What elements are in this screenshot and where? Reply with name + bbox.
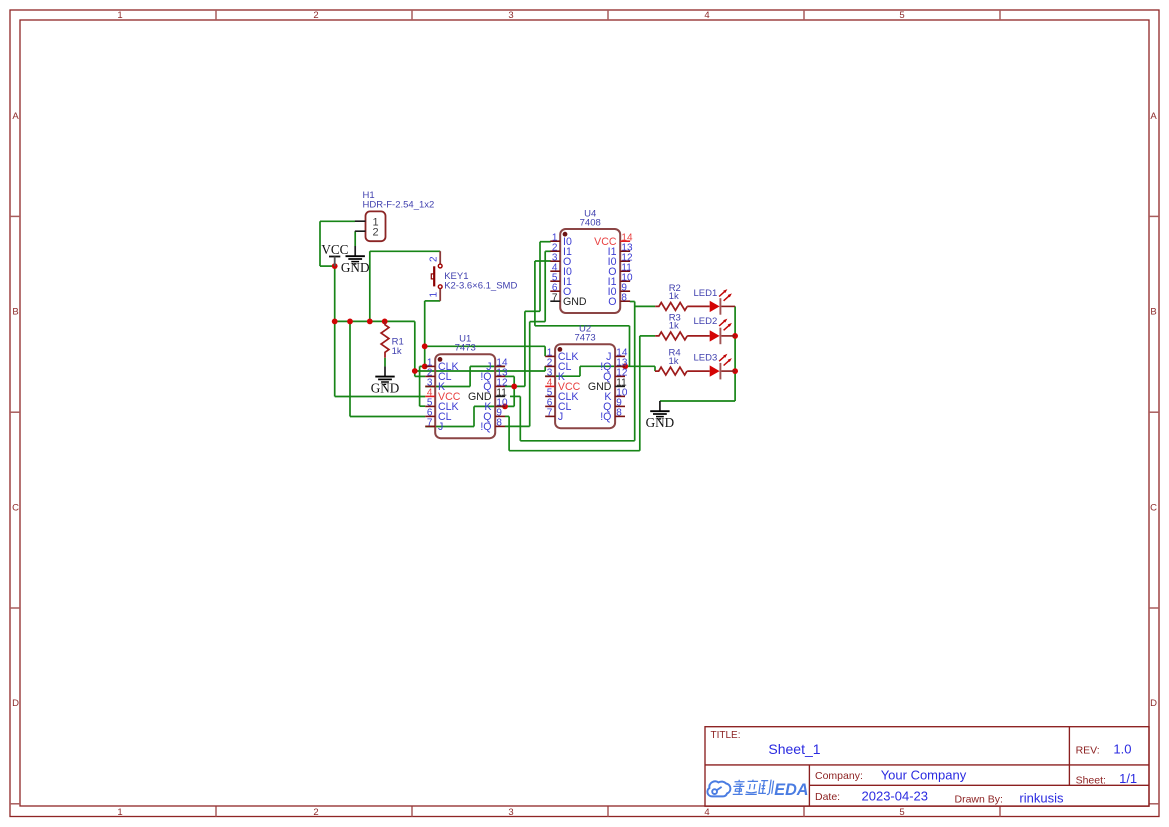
wire to KEY1 pin2 bbox=[370, 250, 440, 252]
wire to U1 pin14 J bbox=[470, 365, 505, 367]
U4 pin 10 (I1) bbox=[608, 272, 633, 287]
U1 pin 10 (K) bbox=[484, 398, 508, 413]
junction at 414.8,371.0 bbox=[412, 368, 418, 374]
wire U1 pin12 Q bbox=[505, 385, 525, 387]
resistor R1 bbox=[381, 321, 389, 357]
wire H1 pin1 to VCC corner bbox=[320, 220, 355, 222]
svg-text:C: C bbox=[1150, 502, 1157, 513]
junction at 514.2,386.4 bbox=[511, 384, 517, 390]
wire to U1 pin6 bbox=[350, 416, 425, 418]
svg-text:3: 3 bbox=[508, 807, 513, 818]
wire bbox=[513, 376, 515, 406]
svg-text:Your Company: Your Company bbox=[881, 768, 967, 783]
U2 pin 10 (K) bbox=[604, 388, 628, 403]
wire bbox=[508, 416, 510, 450]
svg-text:Sheet:: Sheet: bbox=[1076, 774, 1106, 786]
op-amp-style IC body U2 bbox=[555, 344, 615, 428]
wire to U2 pin13 bbox=[580, 365, 625, 367]
wire U1 pin10 K bbox=[474, 405, 514, 407]
U1 pin 4 (VCC) bbox=[425, 388, 460, 403]
U1 pin 8 (!Q) bbox=[480, 418, 505, 433]
svg-text:Company:: Company: bbox=[815, 770, 863, 782]
wire bbox=[420, 365, 425, 367]
U2 pin 8 (!Q) bbox=[600, 408, 625, 423]
wire U4 pin3 O bbox=[535, 260, 551, 262]
svg-text:GND: GND bbox=[371, 381, 400, 396]
wire bbox=[530, 321, 546, 323]
wire KEY1 pin1 bbox=[425, 300, 441, 302]
svg-text:2: 2 bbox=[313, 807, 318, 818]
wire bbox=[579, 366, 581, 376]
wire bbox=[654, 366, 656, 371]
svg-text:8: 8 bbox=[621, 292, 627, 303]
U4 pin 7 (GND) bbox=[550, 292, 587, 307]
svg-text:C: C bbox=[12, 502, 19, 513]
wire bbox=[320, 265, 335, 267]
svg-text:Sheet_1: Sheet_1 bbox=[768, 741, 820, 757]
svg-text:O: O bbox=[608, 296, 616, 308]
U4 pin 9 (I0) bbox=[608, 282, 630, 297]
U2 pin 11 (GND) bbox=[588, 378, 627, 393]
wire bbox=[414, 321, 416, 376]
U4 pin 4 (I0) bbox=[550, 262, 572, 277]
U2 pin 7 (J) bbox=[545, 408, 563, 423]
svg-text:TITLE:: TITLE: bbox=[711, 730, 741, 741]
svg-text:Date:: Date: bbox=[815, 791, 840, 803]
wire bbox=[525, 310, 540, 312]
U1 pin 3 (K) bbox=[425, 378, 445, 393]
svg-text:K2-3.6×6.1_SMD: K2-3.6×6.1_SMD bbox=[444, 281, 517, 292]
svg-text:LED2: LED2 bbox=[694, 316, 718, 327]
wire U1 pin7 J bbox=[425, 426, 474, 428]
U1 pin 11 (GND) bbox=[468, 388, 507, 403]
svg-text:1.0: 1.0 bbox=[1113, 742, 1131, 757]
svg-text:LED3: LED3 bbox=[694, 352, 718, 363]
U2 pin 3 (K) bbox=[545, 368, 565, 383]
wire U1 pin3 K bbox=[425, 386, 470, 388]
svg-text:5: 5 bbox=[899, 807, 904, 818]
pushbutton KEY1 bbox=[431, 251, 442, 301]
svg-text:!Q: !Q bbox=[600, 411, 611, 423]
wire U4 pin8 jog bbox=[630, 301, 635, 303]
wire to U4 pin1 bbox=[540, 241, 551, 243]
wire to U1 pin5 bbox=[420, 405, 426, 407]
junction at 369.8,321.4 bbox=[367, 319, 373, 325]
U1 pin 2 (CL) bbox=[425, 368, 451, 383]
wire bbox=[534, 261, 536, 326]
svg-text:1/1: 1/1 bbox=[1119, 771, 1137, 786]
wire U1 pin11 stub net bbox=[510, 395, 520, 397]
resistor R4 bbox=[655, 367, 687, 375]
JLCEDA logo cloud icon bbox=[707, 781, 730, 796]
H1 pin 2 bbox=[355, 230, 366, 232]
svg-text:GND: GND bbox=[341, 260, 370, 275]
title block bbox=[705, 727, 1149, 807]
U2 pin 9 (Q) bbox=[603, 398, 625, 413]
svg-text:Drawn By:: Drawn By: bbox=[955, 794, 1003, 806]
wire to U4 pin2 bbox=[545, 250, 551, 252]
wire bbox=[419, 366, 421, 406]
svg-text:!Q: !Q bbox=[480, 421, 491, 433]
U1 pin 7 (J) bbox=[425, 418, 443, 433]
wire R1 to GND bbox=[384, 358, 386, 367]
svg-text:7408: 7408 bbox=[580, 217, 601, 228]
svg-text:1: 1 bbox=[117, 10, 122, 21]
wire to U1 pin4 VCC bbox=[335, 396, 426, 398]
svg-text:EDA: EDA bbox=[774, 781, 808, 799]
junction at 735.1,371.1 bbox=[732, 368, 738, 374]
svg-text:7: 7 bbox=[552, 292, 558, 303]
wire H1 pin2 to GND bbox=[354, 231, 356, 246]
svg-text:LED1: LED1 bbox=[694, 288, 718, 299]
svg-text:1k: 1k bbox=[392, 346, 402, 357]
LED LED1 bbox=[687, 289, 735, 315]
svg-text:4: 4 bbox=[704, 807, 709, 818]
svg-text:rinkusis: rinkusis bbox=[1019, 791, 1064, 806]
ground below R1 bbox=[371, 366, 400, 395]
wire to U2 pin2 bbox=[544, 366, 546, 371]
svg-text:1: 1 bbox=[117, 807, 122, 818]
wire bbox=[319, 221, 321, 266]
junction at 334.7,266.1 bbox=[332, 263, 338, 269]
U4 pin 14 (VCC) bbox=[594, 232, 633, 247]
svg-text:VCC: VCC bbox=[321, 242, 348, 257]
svg-text:5: 5 bbox=[899, 10, 904, 21]
U4 pin 5 (I1) bbox=[550, 272, 572, 287]
svg-text:A: A bbox=[12, 111, 19, 122]
U2 pin 12 (Q) bbox=[603, 368, 628, 383]
junction at 350,321.4 bbox=[347, 319, 353, 325]
resistor R3 bbox=[655, 332, 687, 340]
wire U2 pin3 K bbox=[545, 375, 580, 377]
svg-text:1k: 1k bbox=[669, 291, 679, 302]
wire U1 pin13 bbox=[505, 375, 514, 377]
U1 pin 14 (J) bbox=[486, 358, 508, 373]
U1 pin 9 (Q) bbox=[483, 408, 505, 423]
svg-text:2: 2 bbox=[429, 256, 440, 262]
U2 pin 13 (!Q) bbox=[600, 358, 628, 373]
wire bbox=[519, 396, 521, 440]
wire LED cathode rail bbox=[734, 306, 736, 401]
LED LED2 bbox=[687, 319, 735, 345]
wire bbox=[544, 251, 546, 321]
VCC power symbol bbox=[321, 242, 348, 266]
H1 pin 1 bbox=[355, 220, 366, 222]
junction at 334.7,321.4 bbox=[332, 319, 338, 325]
wire bbox=[539, 242, 541, 312]
U2 pin 6 (CL) bbox=[545, 398, 571, 413]
wire bbox=[634, 302, 636, 441]
wire bbox=[349, 321, 351, 416]
svg-text:2023-04-23: 2023-04-23 bbox=[862, 789, 929, 804]
U4 pin 12 (I0) bbox=[608, 252, 633, 267]
connector H1 body bbox=[366, 211, 386, 241]
U4 pin 2 (I1) bbox=[550, 242, 572, 257]
op-amp-style IC body U1 bbox=[435, 354, 495, 438]
svg-text:1k: 1k bbox=[669, 356, 679, 367]
svg-text:J: J bbox=[438, 421, 443, 433]
wire bbox=[629, 326, 631, 367]
junction at 735.1,335.9 bbox=[732, 333, 738, 339]
svg-text:D: D bbox=[1150, 698, 1157, 709]
wire VCC net vertical bbox=[334, 266, 336, 396]
U2 pin 5 (CLK) bbox=[545, 388, 578, 403]
wire to R2 bbox=[635, 305, 656, 307]
wire to U1 pin2 bbox=[415, 375, 426, 377]
U2 pin 14 (J) bbox=[606, 348, 628, 363]
wire bbox=[535, 325, 630, 327]
wire bbox=[424, 301, 426, 367]
U4 pin 11 (O) bbox=[608, 262, 632, 277]
U1 pin 6 (CL) bbox=[425, 408, 451, 423]
svg-text:B: B bbox=[12, 306, 18, 317]
wire bbox=[524, 311, 526, 386]
wire CL net bbox=[415, 370, 545, 372]
svg-text:3: 3 bbox=[508, 10, 513, 21]
resistor R2 bbox=[655, 303, 687, 311]
svg-text:8: 8 bbox=[496, 418, 502, 429]
wire bbox=[529, 322, 531, 427]
wire VCC rail bbox=[335, 320, 415, 322]
ground for LEDs bbox=[646, 401, 675, 430]
U1 pin 5 (CLK) bbox=[425, 398, 458, 413]
junction at 424.7,346.3 bbox=[422, 343, 428, 349]
wire bbox=[369, 251, 371, 321]
wire to R3 bbox=[640, 335, 655, 337]
svg-text:REV:: REV: bbox=[1076, 745, 1100, 757]
U1 pin 1 (CLK) bbox=[425, 358, 458, 373]
U2 pin 2 (CL) bbox=[545, 358, 571, 373]
junction at 384.7,321.4 bbox=[382, 319, 388, 325]
U2 pin 4 (VCC) bbox=[545, 378, 580, 393]
svg-text:8: 8 bbox=[616, 408, 622, 419]
U4 pin 6 (O) bbox=[550, 282, 571, 297]
svg-text:J: J bbox=[558, 411, 563, 423]
svg-text:2: 2 bbox=[313, 10, 318, 21]
wire U2 pin13 to R4 bbox=[625, 365, 655, 367]
svg-text:7473: 7473 bbox=[455, 343, 476, 354]
svg-text:7473: 7473 bbox=[575, 333, 596, 344]
wire bbox=[469, 366, 471, 386]
U4 pin 13 (I1) bbox=[608, 242, 633, 257]
ground near H1 bbox=[341, 246, 370, 275]
svg-text:1k: 1k bbox=[669, 321, 679, 332]
svg-text:GND: GND bbox=[646, 415, 675, 430]
svg-text:A: A bbox=[1150, 111, 1157, 122]
U1 pin 12 (Q) bbox=[483, 378, 508, 393]
wire U1 pin9 Q bbox=[505, 415, 509, 417]
LED LED3 bbox=[687, 354, 735, 380]
svg-text:B: B bbox=[1150, 306, 1156, 317]
U4 pin 1 (I0) bbox=[550, 232, 572, 247]
U4 pin 8 (O) bbox=[608, 292, 630, 307]
svg-text:7: 7 bbox=[427, 418, 433, 429]
op-amp-style IC body U4 bbox=[560, 229, 620, 313]
U2 pin 1 (CLK) bbox=[545, 348, 578, 363]
svg-text:HDR-F-2.54_1x2: HDR-F-2.54_1x2 bbox=[363, 199, 435, 210]
wire bbox=[520, 440, 634, 442]
junction at 505,406.4 bbox=[502, 404, 508, 410]
U4 pin 3 (O) bbox=[550, 252, 571, 267]
svg-text:2: 2 bbox=[372, 227, 378, 239]
wire CLK net bbox=[425, 345, 545, 347]
wire to U2 pin1 bbox=[544, 346, 546, 356]
wire to GND bbox=[660, 400, 735, 402]
JLCEDA logo chinese characters bbox=[732, 780, 773, 795]
svg-text:GND: GND bbox=[563, 296, 587, 308]
junction at 424.7,366.4 bbox=[422, 364, 428, 370]
wire bbox=[473, 406, 475, 426]
svg-text:D: D bbox=[12, 698, 19, 709]
wire U1 pin8 bbox=[505, 425, 530, 427]
wire bbox=[509, 450, 640, 452]
junction at 625.2,366.3 bbox=[622, 363, 628, 369]
svg-text:7: 7 bbox=[547, 408, 553, 419]
svg-text:4: 4 bbox=[704, 10, 709, 21]
U1 pin 13 (!Q) bbox=[480, 368, 508, 383]
svg-text:1: 1 bbox=[429, 292, 440, 298]
wire bbox=[639, 336, 641, 451]
